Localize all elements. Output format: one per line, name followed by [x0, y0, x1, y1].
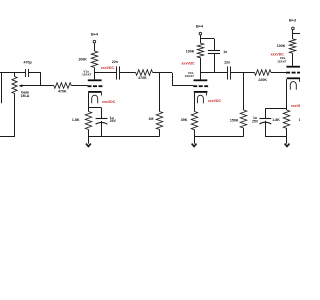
- svg-text:1.8K: 1.8K: [72, 118, 80, 122]
- svg-text:100K: 100K: [277, 44, 286, 48]
- svg-text:12AX7: 12AX7: [82, 73, 92, 77]
- svg-text:B+4: B+4: [91, 32, 99, 36]
- svg-text:xxxVDC: xxxVDC: [102, 100, 116, 104]
- svg-text:470K: 470K: [138, 76, 147, 80]
- svg-text:xxxVDC: xxxVDC: [208, 99, 222, 103]
- svg-text:1n: 1n: [223, 50, 227, 54]
- svg-text:1M-A: 1M-A: [21, 94, 30, 98]
- svg-text:1M: 1M: [148, 117, 153, 121]
- svg-text:100K: 100K: [186, 50, 195, 54]
- svg-text:xxxVDC: xxxVDC: [181, 61, 195, 65]
- svg-text:150K: 150K: [230, 119, 239, 123]
- svg-text:1.8K: 1.8K: [272, 118, 280, 122]
- svg-text:100K: 100K: [78, 57, 87, 61]
- svg-text:39K: 39K: [181, 118, 188, 122]
- svg-text:25V: 25V: [252, 119, 259, 123]
- svg-text:22n: 22n: [224, 60, 230, 64]
- svg-text:xxxVDC: xxxVDC: [291, 104, 300, 108]
- svg-text:22n: 22n: [112, 60, 118, 64]
- svg-text:470K: 470K: [58, 90, 67, 94]
- svg-text:1M: 1M: [299, 118, 300, 122]
- svg-text:12AX7: 12AX7: [185, 74, 195, 78]
- svg-text:470p: 470p: [23, 61, 32, 65]
- svg-text:B+3: B+3: [289, 19, 296, 23]
- svg-text:25V: 25V: [110, 119, 117, 123]
- svg-text:B+4: B+4: [196, 24, 204, 28]
- svg-text:xxxVDC: xxxVDC: [101, 66, 115, 70]
- svg-text:12AX7: 12AX7: [277, 60, 287, 64]
- svg-text:220K: 220K: [258, 78, 267, 82]
